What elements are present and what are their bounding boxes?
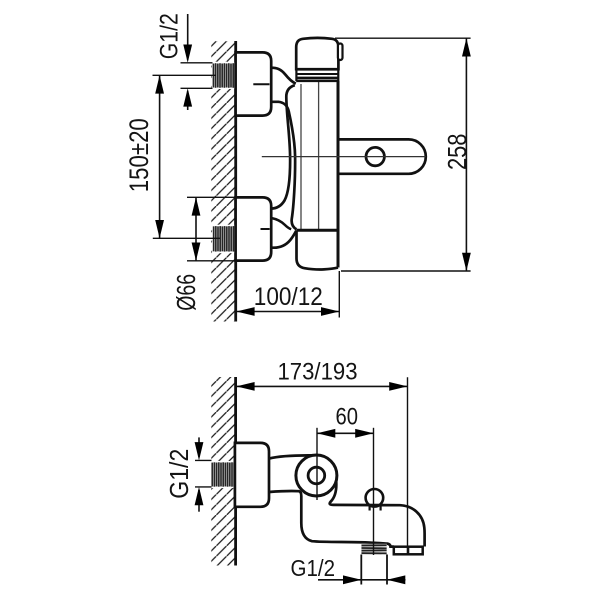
svg-text:Ø66: Ø66 [171,274,201,311]
neck lower bottom edge [271,231,296,248]
handle circle [366,147,384,165]
spout right side: holder to spout top edge and tip [330,481,425,547]
dimension 150±20: extension lines [153,74,217,76]
neck bottom edge and spout left+bottom edge [269,491,394,547]
body thin left edge line [300,84,302,229]
neck upper top edge [271,68,296,84]
spout end cap [394,547,423,555]
shower holder circle [296,455,337,496]
main horizontal centerline (top drawing) [262,156,426,158]
escutcheon (bottom drawing) [235,443,269,507]
neck top edge (bottom drawing) [269,455,312,458]
escutcheon upper (top drawing) [236,52,272,115]
dimension Ø66: line and arrows [195,197,197,260]
wall (top drawing) hatched band [211,41,235,322]
dimension G1/2 outlet: line and outside arrows [318,579,406,581]
thread G1/2 top inlet (top drawing) [212,62,235,89]
escutcheon lower (top drawing) [236,197,272,260]
cap side tab [338,44,343,61]
centerline tick lower escutcheon [261,228,270,230]
svg-text:G1/2: G1/2 [164,449,194,499]
outlet thread (vertical axis, under spout) [361,544,387,555]
box top edge (thick) [297,229,339,232]
svg-text:60: 60 [336,403,359,430]
lower outlet box (top drawing) [297,230,339,269]
body right edge (top drawing) [337,81,340,268]
thread G1/2 wall inlet (bottom drawing) [211,461,235,488]
wall face line (top drawing) [234,41,237,322]
handle lever (top drawing) [339,139,426,173]
dimension Ø66: extension lines [187,196,236,198]
diverter knob stem [369,503,371,511]
dimension G1/2 (top): arrows [187,14,189,60]
svg-text:150±20: 150±20 [124,118,154,192]
dimension 100/12: line and arrows [236,311,339,313]
front curve A (outer-left strand) [271,85,294,208]
dimension 258: extension lines [335,37,471,39]
wall face line (bottom drawing) [234,377,237,566]
svg-text:100/12: 100/12 [254,283,323,311]
thread lower inlet (top drawing) [212,225,235,254]
dimension 150±20: line and arrows [159,75,161,238]
shower holder inner circle [308,467,325,484]
neck upper bottom edge / front curve B (inner-right strand) [271,102,296,230]
outlet side lines down [360,555,362,585]
dimension G1/2 left: arrows [198,437,200,457]
thermostat cap (top drawing) [296,38,338,69]
dimension 60: line and arrows [317,432,374,434]
wall (bottom drawing) hatched band [211,377,235,566]
centerline tick upper escutcheon [253,83,269,85]
dimension G1/2 left (bottom drawing): extension lines [195,459,212,461]
dimension 173/193: extension line right [407,377,409,546]
neck lower top edge [271,218,291,229]
dimension 60: extension lines [316,428,318,500]
end cap divider [407,547,410,555]
svg-text:173/193: 173/193 [278,359,358,386]
collar ring lines [296,68,338,70]
body internal vertical line [318,82,320,229]
svg-text:258: 258 [442,134,472,171]
svg-text:G1/2: G1/2 [155,13,183,59]
dimension 100/12: extension line right [338,271,340,318]
dimension 258: line and arrows [465,38,467,271]
diverter knob [366,489,384,507]
dimension G1/2 (top): extension lines [181,62,213,64]
dimension 173/193: line and arrows [236,385,407,387]
svg-text:G1/2: G1/2 [291,555,336,581]
